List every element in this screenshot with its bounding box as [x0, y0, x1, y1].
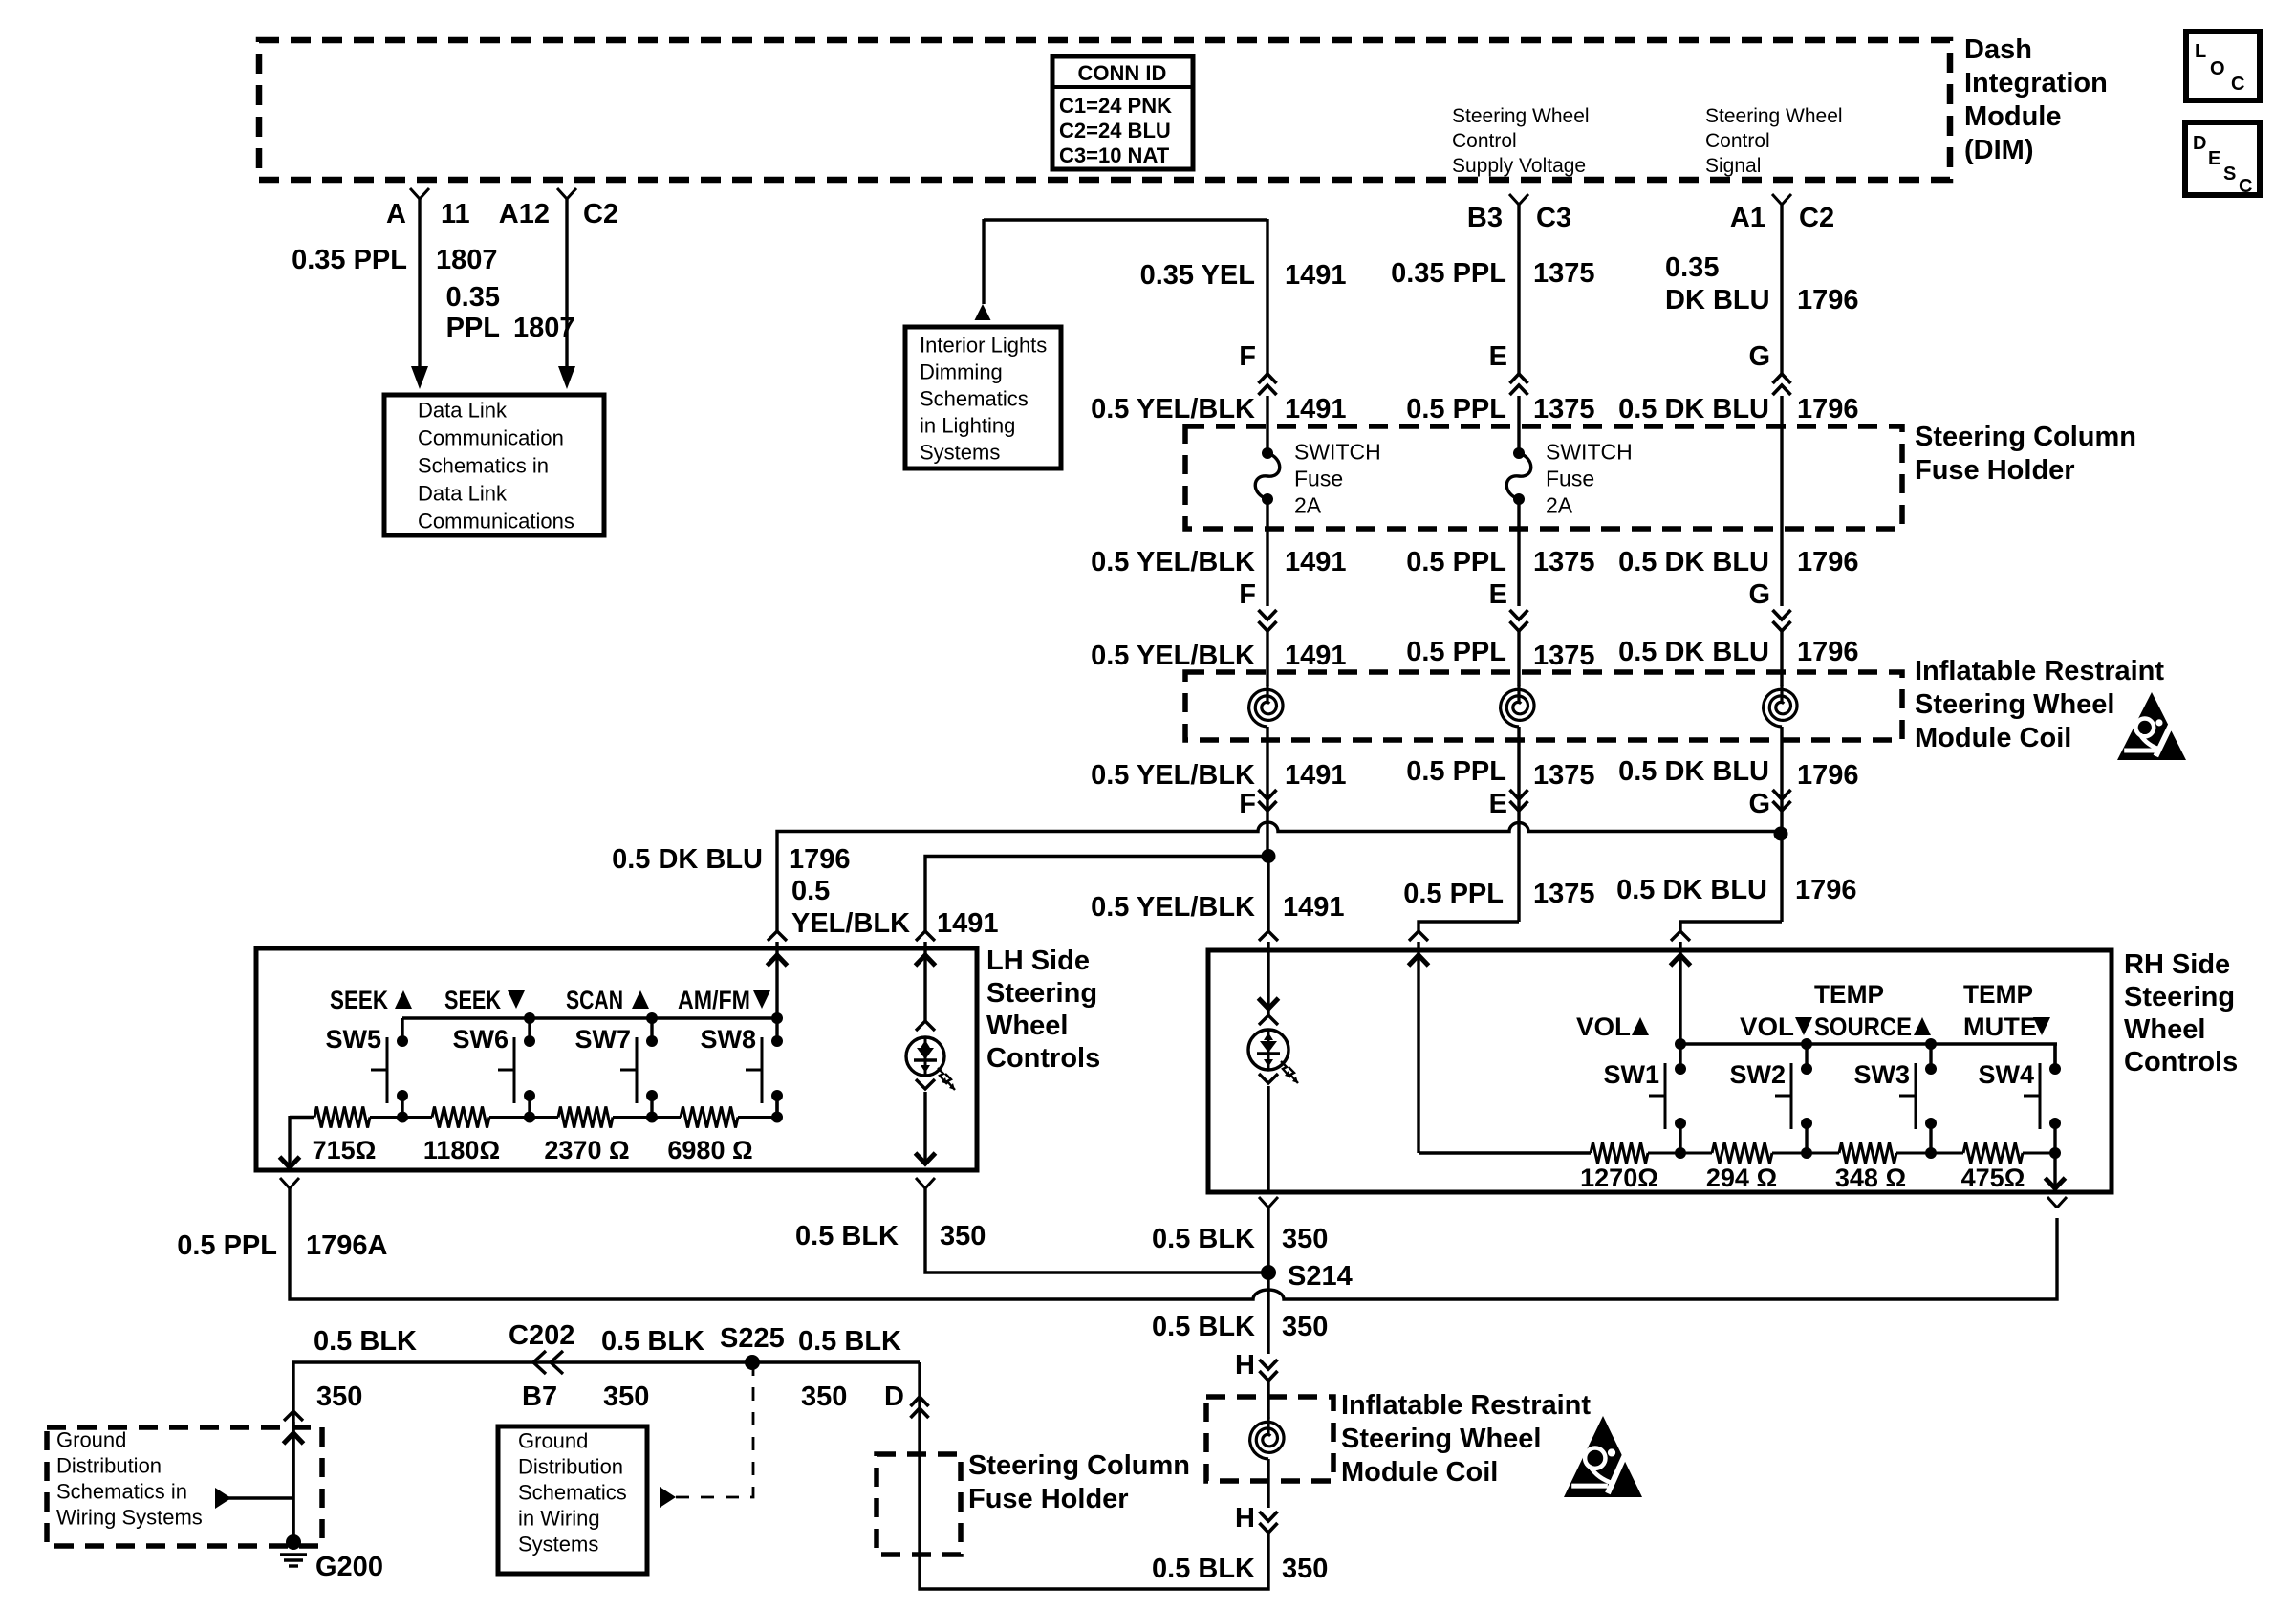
label 0.5 BLK	[314, 1326, 417, 1357]
label SWITCH Fuse 2A (F)	[1294, 439, 1381, 517]
label 1796A	[306, 1230, 388, 1261]
label G200	[315, 1552, 383, 1582]
svg-text:B7: B7	[522, 1382, 557, 1412]
label: Inflatable Restraint Steering Wheel Module Coil (bottom)	[1341, 1390, 1591, 1488]
svg-text:Distribution: Distribution	[518, 1455, 623, 1479]
svg-text:SCAN: SCAN	[566, 986, 623, 1014]
svg-text:2370 Ω: 2370 Ω	[544, 1136, 629, 1164]
svg-text:H: H	[1235, 1503, 1255, 1534]
svg-text:0.5 YEL/BLK: 0.5 YEL/BLK	[1091, 892, 1255, 923]
svg-text:SOURCE: SOURCE	[1814, 1012, 1912, 1041]
connector Y at DIM pin A12 / C2	[557, 188, 576, 199]
svg-text:F: F	[1239, 789, 1256, 819]
svg-text:Schematics in: Schematics in	[56, 1480, 187, 1504]
coil: steering wheel module coil (F circuit)	[1249, 685, 1283, 727]
label 1807	[513, 313, 575, 343]
svg-text:0.5 DK BLU: 0.5 DK BLU	[1618, 394, 1769, 424]
connector double chevron down on wire E	[1510, 610, 1528, 631]
label 1796	[789, 844, 851, 875]
connector Y at DIM pin B3 / C3	[1509, 194, 1528, 205]
label 1491	[1285, 641, 1347, 671]
label SWITCH Fuse 2A (E)	[1546, 439, 1633, 517]
svg-text:G: G	[1748, 579, 1770, 610]
svg-text:G: G	[1748, 789, 1770, 819]
svg-text:Fuse Holder: Fuse Holder	[1915, 455, 2075, 486]
pin label 11	[441, 199, 470, 229]
svg-text:L: L	[2195, 41, 2206, 62]
svg-text:1375: 1375	[1533, 879, 1595, 909]
wire stub into RH box G	[1679, 942, 1681, 950]
label 1491	[1283, 892, 1345, 923]
svg-text:C: C	[2239, 176, 2252, 197]
label 1807	[436, 245, 498, 275]
wire stub into RH box E	[1417, 942, 1419, 950]
wire: S214 down to coil (H)	[1267, 1273, 1269, 1354]
switch SW1	[1649, 1044, 1686, 1153]
svg-text:Control: Control	[1452, 130, 1517, 152]
icon: DESC reference box	[2185, 122, 2260, 197]
svg-text:B3: B3	[1467, 203, 1503, 233]
svg-text:SWITCH: SWITCH	[1294, 439, 1381, 464]
wire: reference arrow to ground wire	[215, 1488, 293, 1509]
fuse: SWITCH Fuse 2A (E circuit)	[1506, 447, 1531, 505]
label 0.35 YEL	[1140, 260, 1255, 291]
connector Y below RH box right	[2047, 1197, 2067, 1207]
svg-text:A: A	[386, 199, 406, 229]
svg-text:0.5 PPL: 0.5 PPL	[1406, 394, 1506, 424]
svg-text:1375: 1375	[1533, 760, 1595, 791]
node on LH bus at SW7	[646, 1012, 658, 1024]
label 475 ohm	[1961, 1164, 2025, 1192]
pin label A1	[1730, 203, 1765, 233]
svg-text:0.5 BLK: 0.5 BLK	[1152, 1224, 1255, 1254]
label 0.35 PPL	[292, 245, 407, 275]
label 0.5 YEL/BLK	[1091, 892, 1255, 923]
svg-text:Steering Wheel: Steering Wheel	[1341, 1424, 1542, 1454]
connector chevron into RH box at x=1758	[1671, 931, 1690, 941]
arrowhead down to LH box bottom	[280, 1157, 300, 1167]
svg-text:Steering: Steering	[986, 978, 1097, 1009]
pin letter G	[1748, 789, 1770, 819]
svg-text:0.35 YEL: 0.35 YEL	[1140, 260, 1255, 291]
label 350	[1282, 1224, 1328, 1254]
svg-text:D: D	[2193, 133, 2206, 154]
label SEEK with down triangle	[444, 986, 525, 1014]
pin label C2	[1799, 203, 1834, 233]
svg-text:1796: 1796	[1797, 547, 1859, 577]
svg-text:in Wiring: in Wiring	[518, 1507, 600, 1531]
svg-text:Inflatable Restraint: Inflatable Restraint	[1341, 1390, 1591, 1421]
svg-text:Communications: Communications	[418, 510, 574, 533]
arrowhead into Data Link box (right)	[558, 366, 575, 389]
label 1180 ohm	[423, 1136, 500, 1164]
svg-text:0.5 BLK: 0.5 BLK	[1152, 1554, 1255, 1584]
label 350	[801, 1382, 847, 1412]
svg-text:0.35 PPL: 0.35 PPL	[292, 245, 407, 275]
resistor 715 ohm	[314, 1107, 408, 1128]
label 2370 ohm	[544, 1136, 629, 1164]
wire: 0.5 YEL/BLK 1491 branch from F to LH box	[925, 857, 1268, 932]
label 0.5 PPL	[1403, 879, 1504, 909]
label 0.5 DK BLU	[1618, 394, 1769, 424]
switch SW5	[371, 1018, 408, 1118]
svg-text:350: 350	[940, 1221, 986, 1251]
connector Y below RH box LED wire	[1259, 1197, 1278, 1207]
resistor 294 ohm	[1680, 1142, 1812, 1164]
label 294 ohm	[1706, 1164, 1777, 1192]
connector double chevron up on wire F	[1259, 374, 1277, 395]
svg-text:E: E	[2208, 148, 2220, 169]
svg-text:1270Ω: 1270Ω	[1580, 1164, 1658, 1192]
svg-text:0.5: 0.5	[791, 876, 830, 906]
label 0.5 BLK	[1152, 1224, 1255, 1254]
svg-text:C202: C202	[509, 1320, 574, 1351]
label VOL with up triangle	[1576, 1012, 1649, 1041]
connector double chevron down on wire G	[1773, 610, 1791, 631]
wire G through fuse holder	[1780, 396, 1783, 606]
svg-text:SW6: SW6	[452, 1025, 509, 1054]
label SW7	[574, 1025, 631, 1054]
label 1491	[1285, 760, 1347, 791]
wire: 0.5 BLK 350 ground bus to G200	[293, 1362, 920, 1542]
connector double chevron down on wire F	[1259, 790, 1277, 811]
svg-text:1375: 1375	[1533, 258, 1595, 289]
svg-text:S: S	[2223, 163, 2236, 185]
node on LH bus at SW6	[524, 1012, 535, 1024]
svg-text:1796A: 1796A	[306, 1230, 388, 1261]
svg-text:0.5 YEL/BLK: 0.5 YEL/BLK	[1091, 394, 1255, 424]
wire H into bottom coil	[1267, 1381, 1269, 1419]
module box: Dash Integration Module (DIM), dashed outline	[259, 40, 1950, 180]
svg-text:Integration: Integration	[1964, 68, 2108, 98]
svg-text:1375: 1375	[1533, 547, 1595, 577]
label 6980 ohm	[667, 1136, 752, 1164]
icon: SRS airbag warning triangle (bottom)	[1564, 1416, 1642, 1497]
label 350	[940, 1221, 986, 1251]
svg-text:Steering Column: Steering Column	[1915, 422, 2136, 452]
wire stub into LH box right	[923, 942, 926, 950]
wire: RH resistor bus left segment	[1419, 1151, 1591, 1154]
svg-text:0.5 DK BLU: 0.5 DK BLU	[1618, 756, 1769, 787]
connector chevron into LH box at x=813	[768, 931, 787, 941]
svg-text:C2: C2	[583, 199, 618, 229]
connector Y at DIM pin A / 11	[410, 188, 429, 199]
pin letter F	[1239, 789, 1256, 819]
svg-text:YEL/BLK: YEL/BLK	[791, 908, 910, 939]
svg-text:H: H	[1235, 1350, 1255, 1381]
svg-text:Systems: Systems	[518, 1533, 598, 1556]
svg-text:LH Side: LH Side	[986, 946, 1090, 976]
svg-text:MUTE: MUTE	[1963, 1012, 2037, 1041]
svg-text:1180Ω: 1180Ω	[423, 1136, 500, 1164]
wire G into coil box	[1780, 631, 1783, 686]
label 0.5 / YEL-BLK (two lines)	[791, 876, 910, 939]
wire: F wire from junction down to RH box	[1267, 857, 1269, 932]
svg-text:AM/FM: AM/FM	[678, 986, 750, 1014]
label: Steering Wheel Control Supply Voltage (pin B3 function)	[1452, 105, 1590, 177]
label 0.5 PPL	[177, 1230, 277, 1261]
switch SW3	[1899, 1044, 1937, 1153]
label 0.5 BLK	[798, 1326, 901, 1357]
label 1491	[1285, 260, 1347, 291]
resistor 1180 ohm	[402, 1107, 535, 1128]
wire E fuse to connector	[1517, 499, 1520, 606]
svg-text:1491: 1491	[1285, 394, 1347, 424]
node on RH bus at SW2	[1801, 1038, 1812, 1050]
svg-text:Module Coil: Module Coil	[1915, 723, 2071, 753]
node: splice S214	[1261, 1265, 1276, 1280]
wire F into coil box	[1266, 631, 1268, 686]
switch SW2	[1775, 1044, 1812, 1153]
wire: 0.35 PPL 1375 from DIM B3 down	[1517, 205, 1520, 374]
svg-text:SW8: SW8	[700, 1025, 756, 1054]
svg-text:0.35: 0.35	[446, 282, 500, 313]
svg-text:Interior Lights: Interior Lights	[920, 334, 1047, 358]
svg-text:2A: 2A	[1294, 492, 1322, 517]
connector C202 chevrons	[533, 1351, 563, 1374]
svg-text:1796: 1796	[1797, 637, 1859, 667]
switch SW8	[746, 1018, 783, 1118]
svg-text:0.5 DK BLU: 0.5 DK BLU	[1618, 547, 1769, 577]
wire: RH resistor bus right end down	[2053, 1153, 2056, 1189]
pin label A	[386, 199, 406, 229]
svg-text:Steering Wheel: Steering Wheel	[1452, 105, 1590, 127]
svg-text:6980 Ω: 6980 Ω	[667, 1136, 752, 1164]
wire: 0.35 DK BLU 1796 from DIM A1 down	[1780, 205, 1783, 374]
wire: resistor bus left end down	[290, 1116, 314, 1167]
svg-text:1807: 1807	[513, 313, 575, 343]
coil: steering wheel module coil (ground circuit)	[1250, 1417, 1284, 1459]
svg-text:Signal: Signal	[1705, 155, 1761, 177]
svg-text:Module Coil: Module Coil	[1341, 1457, 1498, 1488]
wire H below coil	[1267, 1459, 1269, 1508]
label S225	[720, 1323, 785, 1354]
label: CONN ID table	[1052, 56, 1193, 169]
switch SW4	[2024, 1044, 2061, 1153]
svg-text:Steering: Steering	[2124, 982, 2235, 1012]
module box: Inflatable Restraint Steering Wheel Module Coil (dashed)	[1185, 672, 1902, 740]
wire: LH LED to box bottom	[916, 1092, 936, 1164]
connector Y below LH box LED wire	[916, 1178, 935, 1188]
label 1796	[1797, 285, 1859, 315]
label C202	[509, 1320, 574, 1351]
reference box: Data Link Communication Schematics	[384, 395, 604, 535]
wire stub into LH box left	[775, 942, 778, 950]
label SW8	[700, 1025, 756, 1054]
wire E into fuse holder	[1517, 396, 1520, 453]
label 0.5 YEL/BLK	[1091, 394, 1255, 424]
svg-text:PPL: PPL	[446, 313, 500, 343]
label 350	[316, 1382, 362, 1412]
wire: RH bus right end to SW4	[2053, 1044, 2056, 1069]
svg-text:0.5 PPL: 0.5 PPL	[177, 1230, 277, 1261]
svg-text:1796: 1796	[1797, 394, 1859, 424]
svg-text:Communication: Communication	[418, 426, 564, 450]
svg-text:Wheel: Wheel	[986, 1011, 1068, 1041]
reference box: Interior Lights Dimming Schematics in Lighting Systems	[905, 327, 1061, 468]
pin label C3	[1536, 203, 1571, 233]
pin label B3	[1467, 203, 1503, 233]
svg-text:0.5 DK BLU: 0.5 DK BLU	[1616, 875, 1767, 905]
svg-text:Schematics: Schematics	[518, 1481, 627, 1505]
module box: Steering Column Fuse Holder (dashed)	[1185, 426, 1902, 529]
wire: 0.5 DK BLU 1796 bus from G to LH box (hops F and E)	[777, 822, 1781, 931]
connector chevron on ground wire	[284, 1411, 303, 1421]
connector double chevron down on wire F	[1259, 610, 1277, 631]
label 1491	[1285, 394, 1347, 424]
wire F fuse to connector	[1266, 499, 1268, 606]
svg-text:C1=24 PNK: C1=24 PNK	[1059, 94, 1172, 118]
wire F below coil	[1266, 727, 1268, 856]
svg-text:SW4: SW4	[1978, 1060, 2034, 1089]
label 0.5 PPL	[1406, 637, 1506, 667]
label 0.5 DK BLU	[612, 844, 763, 875]
label 0.5 BLK	[601, 1326, 704, 1357]
label 0.5 YEL/BLK	[1091, 641, 1255, 671]
svg-text:C2: C2	[1799, 203, 1834, 233]
module box: bottom Steering Column Fuse Holder (dashed)	[877, 1454, 961, 1555]
svg-text:Ground: Ground	[56, 1428, 126, 1452]
label 0.5 PPL	[1406, 547, 1506, 577]
svg-text:VOL: VOL	[1740, 1012, 1794, 1041]
svg-text:Steering Column: Steering Column	[968, 1450, 1190, 1481]
svg-text:D: D	[884, 1382, 904, 1412]
label 1375	[1533, 879, 1595, 909]
svg-text:(DIM): (DIM)	[1964, 135, 2033, 165]
label 0.5 PPL	[1406, 756, 1506, 787]
reference box: Ground Distribution Schematics in Wiring Systems (dashed)	[47, 1427, 322, 1546]
label 0.5 PPL	[1406, 394, 1506, 424]
svg-text:Inflatable Restraint: Inflatable Restraint	[1915, 656, 2164, 686]
svg-text:Ground: Ground	[518, 1429, 588, 1453]
label 1375	[1533, 641, 1595, 671]
bus: LH switch common (top)	[402, 1016, 777, 1019]
wire into SW8 bus with up arrow	[768, 950, 788, 1018]
svg-text:294 Ω: 294 Ω	[1706, 1164, 1777, 1192]
label 1270 ohm	[1580, 1164, 1658, 1192]
svg-text:SW1: SW1	[1603, 1060, 1659, 1089]
svg-text:C: C	[2231, 74, 2244, 95]
svg-text:O: O	[2210, 58, 2225, 79]
node on RH bus at SW3	[1925, 1038, 1937, 1050]
connector Y below LH box left	[280, 1178, 299, 1188]
pin letter H	[1235, 1503, 1255, 1534]
svg-text:Dash: Dash	[1964, 34, 2032, 65]
svg-text:Control: Control	[1705, 130, 1770, 152]
svg-text:G: G	[1748, 341, 1770, 372]
label 0.35 DK BLU (two lines)	[1665, 252, 1770, 315]
label 1796	[1797, 637, 1859, 667]
svg-text:2A: 2A	[1546, 492, 1573, 517]
pin letter D	[884, 1382, 904, 1412]
node: splice S225	[745, 1355, 760, 1370]
label S214	[1288, 1261, 1353, 1292]
label 715 ohm	[313, 1136, 377, 1164]
wire G inside RH box with up arrow	[1671, 950, 1691, 1044]
svg-text:Systems: Systems	[920, 441, 1000, 465]
label: Inflatable Restraint Steering Wheel Module Coil	[1915, 656, 2164, 753]
label 0.5 YEL/BLK	[1091, 547, 1255, 577]
label 1375	[1533, 394, 1595, 424]
svg-text:0.5 DK BLU: 0.5 DK BLU	[1618, 637, 1769, 667]
svg-text:TEMP: TEMP	[1814, 980, 1884, 1009]
label SEEK with up triangle	[330, 986, 412, 1014]
svg-text:1796: 1796	[789, 844, 851, 875]
label: Dash Integration Module (DIM) title	[1964, 34, 2108, 165]
pin letter G	[1748, 579, 1770, 610]
label SW1	[1603, 1060, 1659, 1089]
label AM/FM with down triangle	[678, 986, 770, 1014]
svg-text:F: F	[1239, 579, 1256, 610]
svg-text:475Ω: 475Ω	[1961, 1164, 2025, 1192]
svg-text:A12: A12	[499, 199, 550, 229]
arrowhead from Interior Lights box (points up)	[975, 304, 991, 320]
svg-text:0.5 BLK: 0.5 BLK	[795, 1221, 899, 1251]
label 1796	[1797, 547, 1859, 577]
wire: from Interior Lights Dimming to F wire (0.35 YEL feed)	[984, 219, 1267, 374]
label 1491	[1285, 547, 1347, 577]
svg-text:0.5 BLK: 0.5 BLK	[601, 1326, 704, 1357]
label: Steering Column Fuse Holder	[1915, 422, 2136, 486]
pin letter E	[1489, 579, 1507, 610]
svg-text:1796: 1796	[1797, 760, 1859, 791]
fuse: SWITCH Fuse 2A (F circuit)	[1255, 447, 1280, 505]
svg-text:0.35: 0.35	[1665, 252, 1719, 283]
label 1375	[1533, 760, 1595, 791]
svg-text:E: E	[1489, 579, 1507, 610]
pin label C2	[583, 199, 618, 229]
connector chevron into RH box at x=1327	[1259, 931, 1278, 941]
bus: RH switch common (top)	[1680, 1042, 2057, 1045]
svg-text:Wheel: Wheel	[2124, 1014, 2205, 1045]
module box: bottom Inflatable Restraint Steering Wheel Module Coil (dashed)	[1206, 1397, 1333, 1481]
wire stub into RH box LED	[1267, 942, 1269, 950]
wire: RH LED to box bottom	[1267, 1086, 1269, 1192]
wire RH LED branch with down arrow	[1259, 950, 1279, 1015]
svg-text:Fuse: Fuse	[1294, 466, 1343, 490]
label SW6	[452, 1025, 509, 1054]
svg-text:0.5 YEL/BLK: 0.5 YEL/BLK	[1091, 547, 1255, 577]
svg-text:1491: 1491	[937, 908, 999, 939]
svg-text:Fuse Holder: Fuse Holder	[968, 1484, 1129, 1514]
svg-text:E: E	[1489, 789, 1507, 819]
connector Y at DIM pin A1 / C2	[1772, 194, 1791, 205]
svg-text:1491: 1491	[1285, 760, 1347, 791]
svg-text:0.5 DK BLU: 0.5 DK BLU	[612, 844, 763, 875]
svg-text:715Ω: 715Ω	[313, 1136, 377, 1164]
resistor 2370 ohm	[530, 1107, 658, 1128]
label 0.35 PPL (two lines)	[446, 282, 500, 343]
svg-text:350: 350	[1282, 1224, 1328, 1254]
wire F into fuse holder	[1266, 396, 1268, 453]
LED: RH illumination lamp	[1248, 1015, 1298, 1083]
svg-text:CONN ID: CONN ID	[1078, 61, 1167, 85]
svg-text:C2=24 BLU: C2=24 BLU	[1059, 119, 1171, 142]
connector double chevron up on wire E	[1510, 374, 1528, 395]
connector double chevron down on H wire	[1260, 1360, 1278, 1381]
label SW2	[1729, 1060, 1786, 1089]
connector double chevron up on D wire	[911, 1397, 929, 1418]
svg-text:SWITCH: SWITCH	[1546, 439, 1633, 464]
svg-text:350: 350	[801, 1382, 847, 1412]
label: RH Side Steering Wheel Controls	[2124, 949, 2238, 1077]
pin letter F at in-line connector	[1239, 341, 1256, 372]
svg-text:SW3: SW3	[1853, 1060, 1910, 1089]
svg-text:0.5 YEL/BLK: 0.5 YEL/BLK	[1091, 641, 1255, 671]
wire G below coil	[1780, 727, 1783, 922]
wire: dashed reference S225 to box	[660, 1362, 753, 1508]
label 350	[603, 1382, 649, 1412]
